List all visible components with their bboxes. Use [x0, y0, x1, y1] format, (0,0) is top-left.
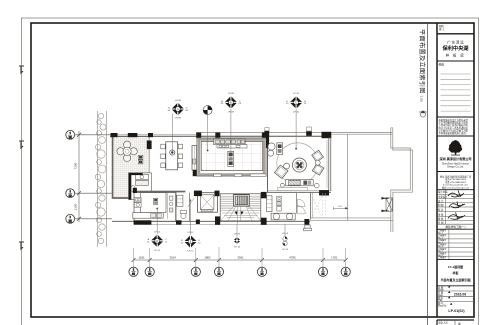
- symbol: kitchen elevation diamond: [147, 209, 168, 252]
- svg-text:LP-08: LP-08: [175, 118, 182, 120]
- svg-text:3624: 3624: [170, 256, 177, 260]
- left treads: [220, 196, 261, 209]
- svg-text:1181: 1181: [139, 256, 145, 260]
- symbol: bath stack: [282, 224, 289, 251]
- deck round table with chairs: [117, 141, 137, 161]
- pier caps above top wall: [265, 127, 312, 131]
- svg-text:E-mail:haozesj@126.com: E-mail:haozesj@126.com: [443, 185, 468, 187]
- WC strip: [176, 193, 194, 222]
- svg-text:10: 10: [286, 103, 289, 105]
- svg-text:1781: 1781: [331, 256, 338, 260]
- below-frame box: [437, 319, 474, 321]
- signature scribbles: [448, 191, 465, 220]
- right armchair lower: [312, 164, 324, 176]
- svg-text:LP-10: LP-10: [293, 111, 300, 113]
- cell 1: scale note: [437, 33, 474, 35]
- svg-text:LP-14: LP-14: [282, 233, 289, 235]
- staircase: [220, 194, 261, 224]
- svg-text:Date: Date: [438, 294, 444, 297]
- svg-text:审定人员: 审定人员: [439, 321, 449, 325]
- svg-text:设计总监: 设计总监: [438, 190, 448, 194]
- svg-text:LP-12: LP-12: [188, 232, 195, 234]
- svg-text:LP-13: LP-13: [234, 246, 241, 248]
- svg-text:批 准: 批 准: [438, 217, 444, 221]
- svg-text:LP-14: LP-14: [282, 249, 289, 251]
- bottom counter: [133, 213, 163, 219]
- plants top-left of living: [268, 143, 275, 150]
- svg-text:10: 10: [304, 103, 307, 105]
- svg-text:LP-01(02): LP-01(02): [448, 309, 465, 313]
- svg-text:深圳·昊泽设计有限公司: 深圳·昊泽设计有限公司: [440, 156, 472, 161]
- TV cabinet: [286, 180, 314, 186]
- grid bubbles: [129, 267, 350, 276]
- top wall piers: [111, 131, 332, 138]
- porch dashed lines: [312, 193, 326, 218]
- section marker top right: [419, 112, 427, 117]
- coffee table: [292, 158, 306, 172]
- binding mark 1: [19, 66, 24, 73]
- cell 7: signature table: [437, 189, 474, 191]
- kitchen top wall band: [133, 191, 186, 193]
- living room rug: [277, 143, 318, 184]
- svg-text:审 核: 审 核: [438, 212, 444, 216]
- symbol: family room diamond: [221, 93, 242, 158]
- svg-text:精装修施工图(一): 精装修施工图(一): [446, 225, 466, 229]
- cell 8: single row: [437, 223, 474, 225]
- svg-text:08: 08: [168, 110, 171, 112]
- svg-text:Design Co.,Ltd.: Design Co.,Ltd.: [447, 166, 464, 169]
- svg-text:样 板 房: 样 板 房: [446, 53, 466, 58]
- dining-kitchen divider cabinet: [192, 146, 197, 171]
- deck side cabinets: [138, 155, 143, 159]
- garden strip left: [95, 111, 106, 247]
- binding mark 3: [19, 242, 24, 249]
- svg-text:设 计: 设 计: [438, 199, 444, 203]
- svg-text:样板: 样板: [452, 270, 459, 275]
- symbol: dining elevation diamond: [168, 100, 189, 152]
- bathroom (bottom right): [267, 196, 306, 220]
- svg-text:11: 11: [147, 242, 150, 244]
- cell 2: project name: [437, 60, 474, 62]
- svg-text:LP-13: LP-13: [234, 234, 241, 236]
- svg-text:LP-09: LP-09: [228, 93, 235, 95]
- left armchair: [274, 165, 287, 178]
- svg-text:LP-11: LP-11: [154, 231, 160, 233]
- svg-text:LP-08: LP-08: [175, 100, 182, 102]
- title block body borders: [436, 23, 438, 317]
- black pier top-left of kitchen: [133, 188, 137, 193]
- svg-text:C: C: [295, 101, 297, 104]
- symbol: living room diamond: [286, 93, 307, 150]
- svg-text:1F-4层别墅: 1F-4层别墅: [448, 264, 463, 269]
- svg-text:3150: 3150: [74, 203, 78, 210]
- svg-text:保利中央湖: 保利中央湖: [442, 44, 469, 52]
- entry steps: [304, 225, 312, 231]
- bath fixtures: [136, 174, 149, 179]
- central flight box: [234, 195, 250, 207]
- walkway dim arrow: [334, 207, 349, 210]
- svg-text:No. 5: No. 5: [438, 251, 444, 253]
- left grid bubbles and dim line: [66, 130, 112, 223]
- cell 9: numbered table: [437, 229, 474, 259]
- short leaders to bubbles: [134, 247, 346, 267]
- console with lamps: [277, 143, 283, 155]
- svg-text:No. 4: No. 4: [438, 246, 444, 248]
- central item: [228, 151, 234, 166]
- svg-text:平面布置及立面索引图: 平面布置及立面索引图: [440, 277, 470, 282]
- svg-text:1882: 1882: [204, 256, 211, 260]
- svg-text:LP-09: LP-09: [228, 111, 235, 113]
- pier left of dining: [147, 141, 152, 150]
- door arc: [298, 199, 305, 206]
- binding mark 2: [19, 141, 24, 148]
- svg-text:施 工: 施 工: [439, 27, 445, 31]
- separator line left of title block: [427, 23, 429, 325]
- svg-text:修改: 修改: [439, 63, 445, 67]
- symbol: datum circle: [203, 106, 212, 152]
- svg-text:广 东 清 远: 广 东 清 远: [447, 40, 464, 45]
- cell 5: company logo block: [437, 171, 474, 173]
- living room walls: [266, 136, 331, 195]
- svg-text:Scale: Scale: [438, 290, 444, 292]
- svg-text:Dwg No.: Dwg No.: [438, 305, 447, 307]
- side yard lines right of living: [347, 134, 349, 220]
- dining room table: [161, 142, 183, 170]
- svg-text:4785: 4785: [289, 256, 296, 260]
- neighbour stepped outline: [391, 128, 413, 232]
- cell 4: disclaimer paragraph: [437, 135, 474, 137]
- svg-text:2016.09: 2016.09: [454, 292, 466, 296]
- foyer walls: [296, 193, 298, 213]
- svg-text:D: D: [156, 240, 158, 243]
- tiled family room: [197, 138, 266, 176]
- sink counter: [271, 213, 295, 220]
- bottom wall with piers: [112, 191, 310, 225]
- svg-text:校 对: 校 对: [438, 208, 444, 212]
- cell 11: scale/date/no rows: [437, 291, 474, 302]
- svg-text:12: 12: [180, 242, 183, 244]
- top counter: [214, 139, 246, 145]
- svg-text:制 图: 制 图: [438, 203, 444, 207]
- deck-bath room (notch): [129, 173, 152, 200]
- elevator: [198, 193, 218, 213]
- svg-text:Title: Title: [438, 299, 443, 302]
- black wall left of bath: [129, 173, 132, 200]
- kitchen (bottom-left): [133, 188, 176, 222]
- svg-text:No. 1: No. 1: [438, 233, 444, 235]
- svg-text:09: 09: [239, 103, 242, 105]
- symbol: hall elevation diamond: [180, 200, 201, 252]
- pantry column right: [166, 193, 168, 219]
- svg-text:08: 08: [185, 110, 188, 112]
- svg-text:LP-11: LP-11: [154, 250, 160, 252]
- svg-text:3361: 3361: [237, 256, 244, 260]
- entry walkway: [310, 217, 391, 219]
- right armchair upper: [312, 150, 324, 162]
- svg-text:主案设计: 主案设计: [438, 195, 448, 199]
- island counter: [140, 193, 166, 213]
- svg-text:LP-10: LP-10: [293, 93, 300, 95]
- svg-text:平面布置及立面索引图: 平面布置及立面索引图: [418, 29, 426, 94]
- top wall main line: [110, 135, 331, 137]
- symbol: stair small diamond: [233, 224, 241, 248]
- deck (hatched terrace): [112, 137, 149, 199]
- svg-text:09: 09: [221, 103, 224, 105]
- left fixtures: [134, 198, 141, 203]
- window X marker on outline: [386, 198, 392, 211]
- svg-text:11: 11: [165, 242, 168, 244]
- top exterior line: [196, 131, 392, 133]
- cell 10: project title: [437, 285, 474, 287]
- svg-text:LP-12: LP-12: [188, 251, 195, 253]
- svg-text:本图纸版权归设计方所有未经: 本图纸版权归设计方所有未经: [439, 118, 469, 122]
- cell 6: address note: [440, 175, 472, 190]
- svg-text:740: 740: [338, 206, 342, 208]
- cell 3: revision table: [437, 116, 474, 118]
- svg-text:1:50: 1:50: [419, 96, 423, 102]
- fence line second: [331, 133, 392, 135]
- svg-text:12: 12: [198, 242, 201, 244]
- sills below family room: [214, 174, 222, 177]
- svg-text:7200: 7200: [74, 162, 78, 169]
- winder treads bottom: [220, 206, 261, 221]
- svg-text:地址:深圳市福田区红荔路壹广场: 地址:深圳市福田区红荔路壹广场: [440, 175, 472, 179]
